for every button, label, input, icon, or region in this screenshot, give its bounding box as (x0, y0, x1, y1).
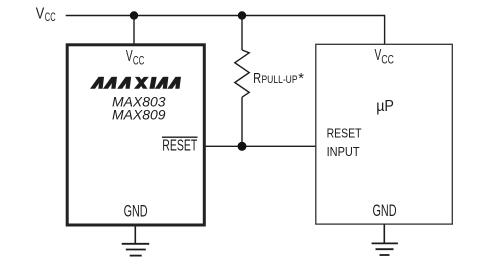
wire resistor bottom to RESET node (241, 97, 243, 146)
Maxim logo (90, 77, 181, 89)
svg-text:MAX809: MAX809 (112, 108, 166, 124)
svg-text:GND: GND (373, 202, 397, 220)
svg-text:CC: CC (133, 55, 144, 67)
svg-text:RESET: RESET (327, 127, 362, 141)
svg-text:R: R (253, 71, 261, 87)
IC U1 MAX803/MAX809 box (67, 45, 204, 225)
svg-text:RESET: RESET (162, 138, 197, 155)
junction VCC rail to MAX803 VCC (130, 11, 138, 19)
svg-text:CC: CC (381, 54, 394, 66)
wire drop to resistor top (241, 16, 243, 51)
label RPULL-UP* (253, 71, 304, 87)
svg-text:GND: GND (124, 202, 148, 220)
svg-text:*: * (298, 71, 304, 87)
svg-text:µP: µP (376, 98, 394, 115)
svg-text:V: V (36, 5, 45, 22)
pin VCC of MAX803 (126, 48, 144, 67)
node VCC supply label top-left (36, 5, 56, 24)
wire RESET output to uP RESET INPUT (204, 145, 316, 147)
ground below MAX803 (122, 227, 150, 256)
pin RESET INPUT of uP (327, 127, 362, 159)
wire VCC rail drop to uP VCC pin (384, 15, 386, 45)
resistor RPULL-UP zigzag (235, 50, 249, 97)
wire drop to MAX803 VCC pin (133, 16, 135, 45)
svg-text:PULL-UP: PULL-UP (262, 74, 298, 86)
svg-text:CC: CC (45, 12, 56, 24)
pin RESET active-low output of MAX803 (162, 137, 198, 155)
junction RESET node (238, 142, 247, 151)
svg-text:INPUT: INPUT (327, 145, 360, 159)
pin VCC of uP (375, 47, 394, 66)
IC U2 microprocessor box (316, 44, 453, 224)
ground below uP (372, 224, 398, 255)
wire VCC top rail (66, 15, 385, 17)
junction VCC rail to pull-up resistor (238, 11, 246, 19)
